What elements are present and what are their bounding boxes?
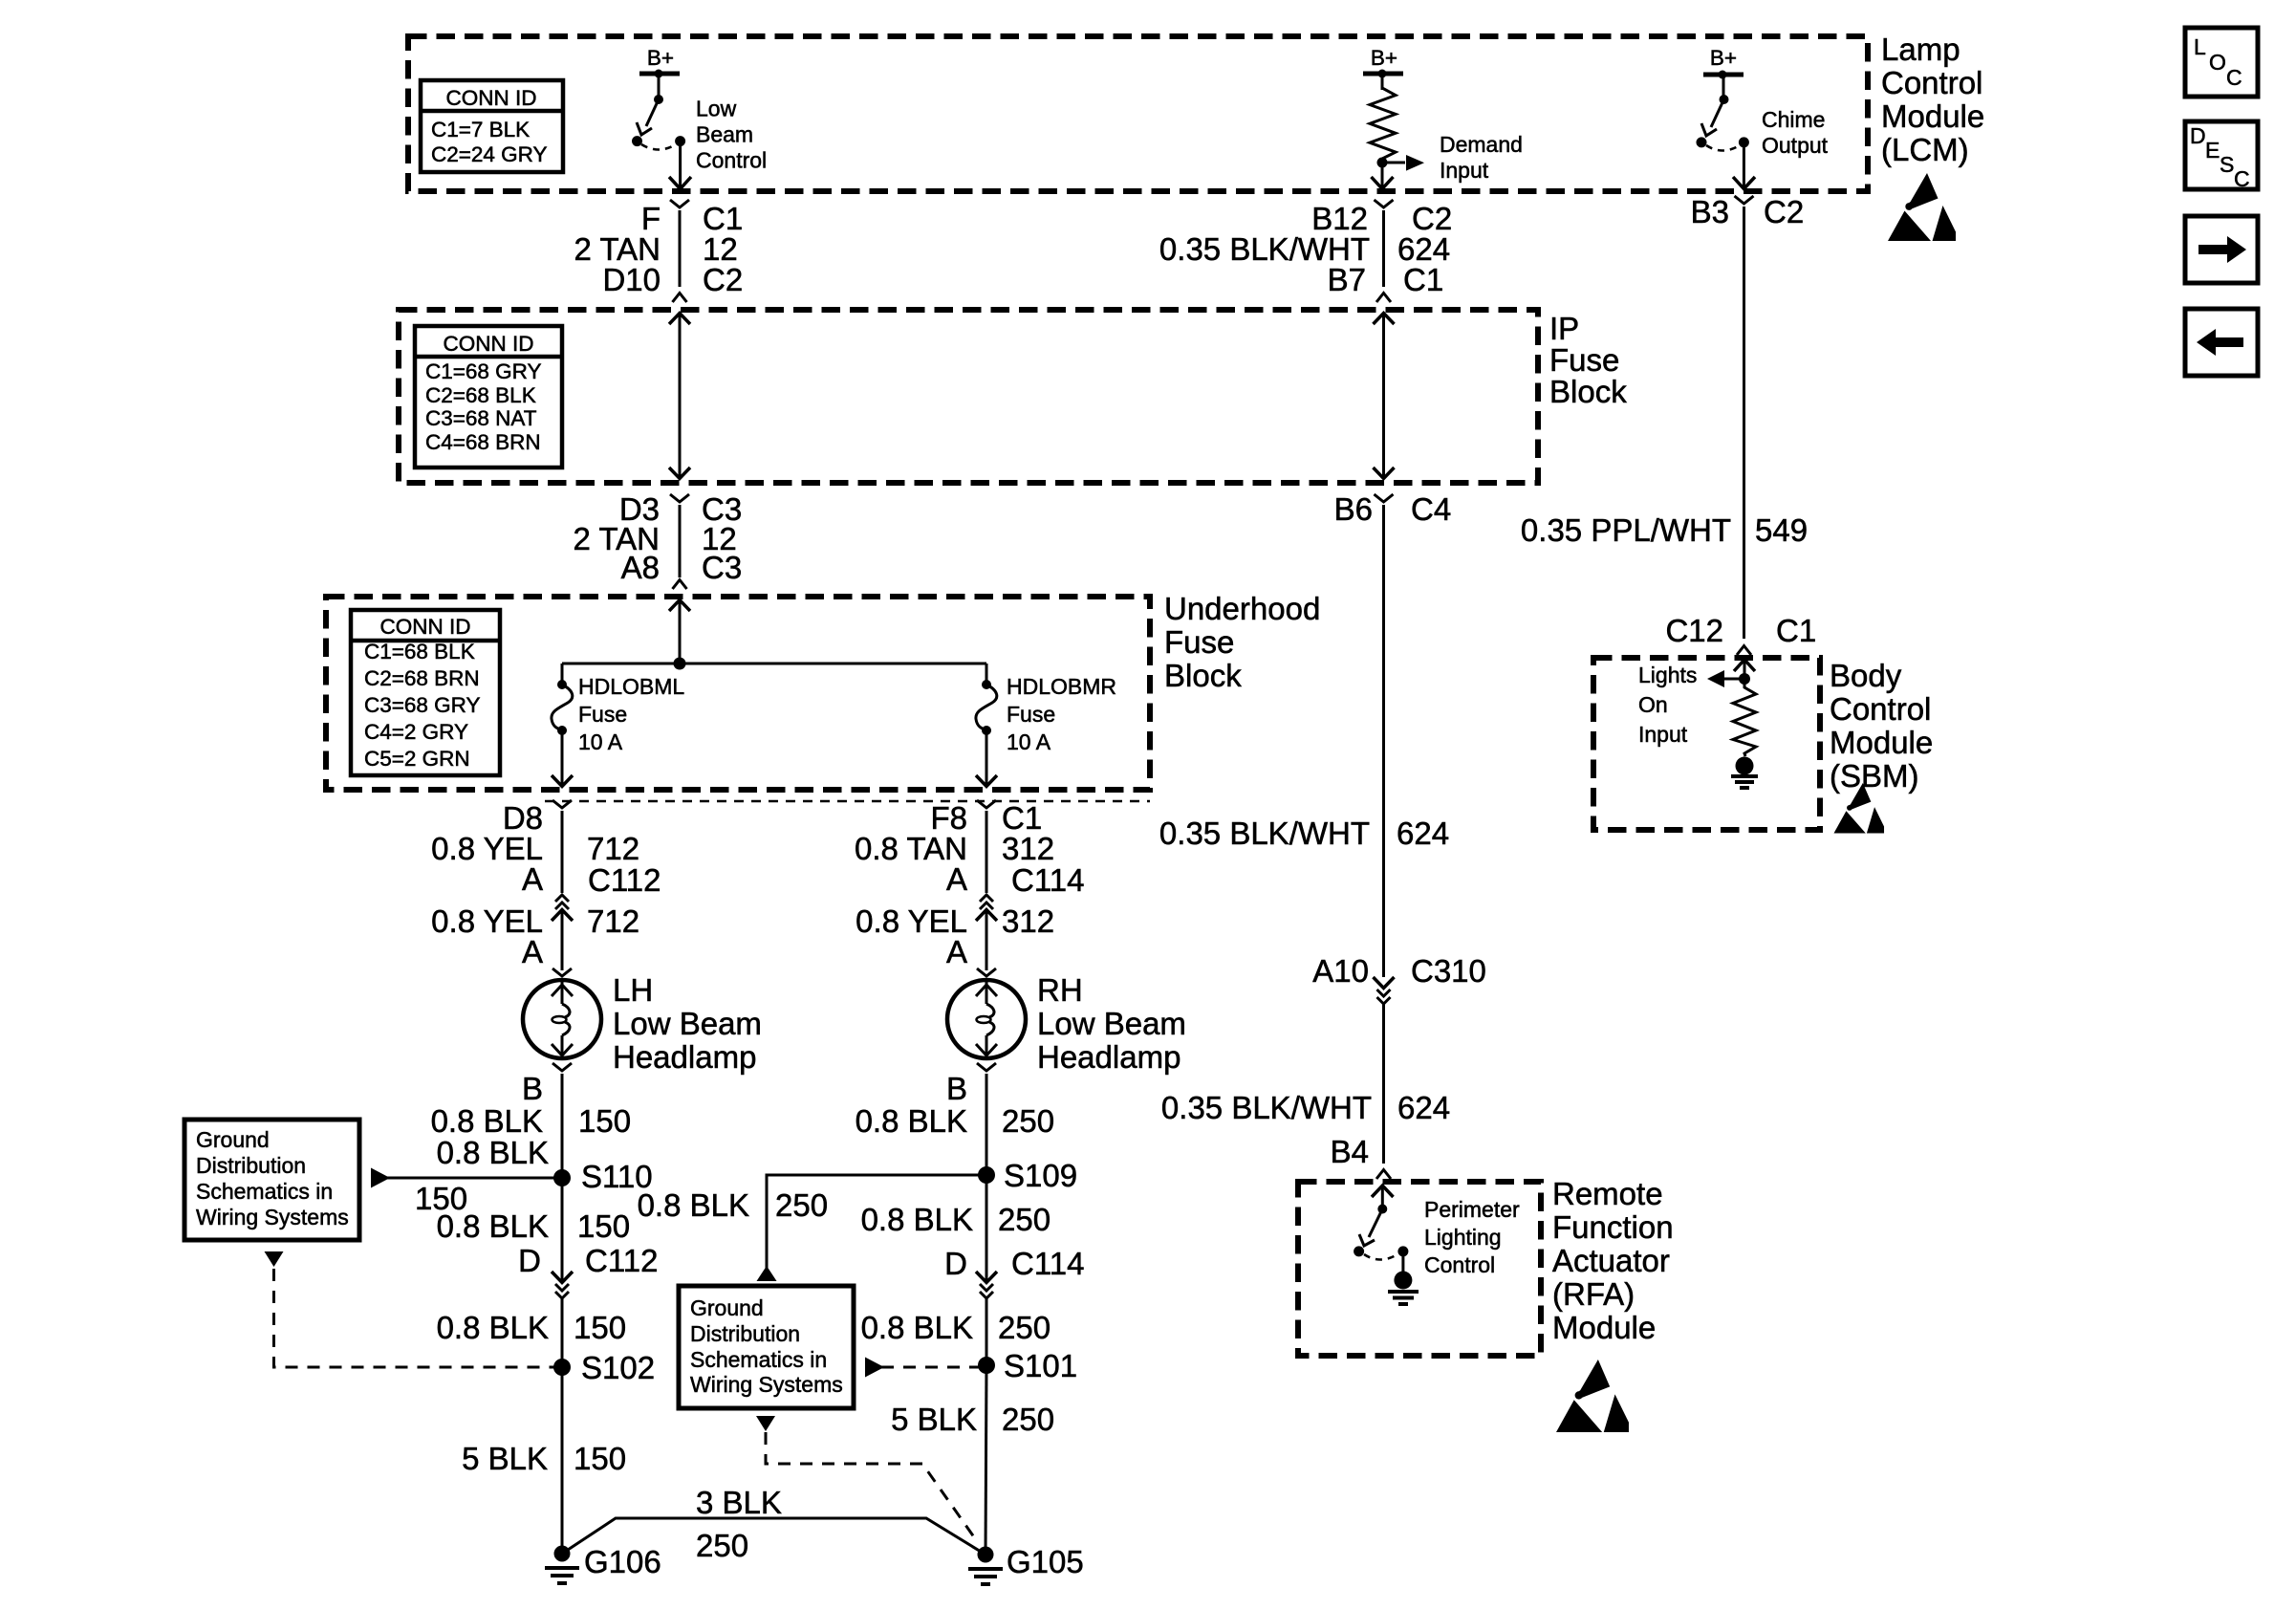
svg-text:B7: B7 bbox=[1328, 262, 1366, 297]
pin label: A / C114 bbox=[946, 861, 1084, 898]
ghost wire: middle ground distribution to G105 bbox=[756, 1416, 977, 1541]
svg-text:B+: B+ bbox=[1371, 46, 1397, 70]
ground: G105 bbox=[968, 1547, 1003, 1585]
svg-text:Wiring Systems: Wiring Systems bbox=[196, 1205, 349, 1229]
svg-text:LH: LH bbox=[613, 972, 653, 1008]
svg-text:Fuse: Fuse bbox=[578, 702, 627, 727]
lamp: LH Low Beam Headlamp bbox=[523, 980, 601, 1058]
ghost wire: middle ground distribution to S101 bbox=[865, 1358, 986, 1378]
ground: G106 bbox=[545, 1546, 579, 1584]
wire: LH headlamp pin B to S110 (0.8 BLK 150) bbox=[552, 1063, 572, 1178]
svg-text:C310: C310 bbox=[1411, 953, 1486, 989]
wire: LCM F/C1 to IP D10/C2 (ckt 12, 2 TAN) bbox=[670, 200, 689, 302]
label: Remote Function Actuator (RFA) Module bbox=[1552, 1176, 1674, 1345]
svg-text:Module: Module bbox=[1830, 725, 1933, 760]
wire label: 5 BLK / 250 bbox=[891, 1402, 1054, 1437]
svg-text:A: A bbox=[946, 861, 967, 897]
wire label: 0.35 BLK/WHT / 624 (lower) bbox=[1161, 1090, 1450, 1125]
svg-text:250: 250 bbox=[1002, 1103, 1054, 1139]
svg-text:Input: Input bbox=[1638, 722, 1688, 747]
svg-text:G105: G105 bbox=[1007, 1544, 1084, 1579]
svg-text:B+: B+ bbox=[647, 46, 674, 70]
svg-text:C3: C3 bbox=[702, 550, 742, 585]
wire: LCM B12/C2 to IP B7/C1 (ckt 624) bbox=[1375, 200, 1394, 302]
svg-text:B4: B4 bbox=[1331, 1134, 1369, 1169]
wire: C112 to S102 (0.8 BLK 150) bbox=[561, 1296, 564, 1367]
svg-text:Schematics in: Schematics in bbox=[690, 1347, 827, 1372]
wire label: 0.8 YEL / 712 bbox=[431, 831, 639, 866]
svg-text:C: C bbox=[2226, 65, 2242, 90]
svg-text:0.35 BLK/WHT: 0.35 BLK/WHT bbox=[1161, 1090, 1372, 1125]
svg-text:Body: Body bbox=[1830, 658, 1902, 693]
label: Low Beam Control bbox=[696, 97, 767, 173]
pin label: A / C112 bbox=[522, 861, 661, 898]
wire label: 0.8 BLK / 250 (S109 jog) bbox=[638, 1187, 828, 1223]
pin label: F / C1 bbox=[641, 201, 743, 236]
svg-text:Wiring Systems: Wiring Systems bbox=[690, 1372, 843, 1397]
svg-text:Schematics in: Schematics in bbox=[196, 1179, 333, 1204]
wire: fuse D8 to C112 pin A (0.8 YEL 712) bbox=[552, 800, 572, 893]
svg-text:B6: B6 bbox=[1334, 491, 1373, 527]
label: HDLOBML Fuse 10 A bbox=[578, 674, 684, 754]
svg-text:312: 312 bbox=[1002, 831, 1054, 866]
label: RH Low Beam Headlamp bbox=[1037, 972, 1186, 1075]
svg-text:C2: C2 bbox=[703, 262, 743, 297]
module box: Lamp Control Module (LCM) bbox=[408, 36, 1868, 191]
svg-text:(RFA): (RFA) bbox=[1552, 1276, 1635, 1312]
wire: ground distribution feed into S110 (0.8 BLK 150) bbox=[371, 1168, 562, 1188]
svg-text:312: 312 bbox=[1002, 903, 1054, 939]
svg-text:C1: C1 bbox=[1776, 613, 1816, 648]
svg-text:CONN ID: CONN ID bbox=[446, 86, 537, 110]
svg-text:Ground: Ground bbox=[690, 1295, 764, 1320]
node: S102 bbox=[553, 1359, 571, 1376]
label: Body Control Module (SBM) bbox=[1830, 658, 1933, 794]
svg-text:Chime: Chime bbox=[1762, 107, 1825, 132]
node: underhood feed tee bbox=[562, 658, 986, 670]
svg-text:549: 549 bbox=[1755, 512, 1808, 548]
svg-text:S102: S102 bbox=[581, 1350, 655, 1385]
svg-text:Ground: Ground bbox=[196, 1127, 270, 1152]
label: Perimeter Lighting Control bbox=[1424, 1197, 1520, 1277]
svg-text:Fuse: Fuse bbox=[1007, 702, 1055, 727]
svg-text:CONN ID: CONN ID bbox=[444, 332, 534, 356]
svg-text:IP: IP bbox=[1549, 311, 1579, 346]
switch: Chime Output bbox=[1697, 75, 1749, 151]
wire: low beam control output with arrow into LCM edge bbox=[669, 146, 691, 189]
switch: Perimeter Lighting Control (RFA) bbox=[1354, 1186, 1419, 1304]
pin label: A10 / C310 bbox=[1312, 953, 1486, 989]
svg-text:Low Beam: Low Beam bbox=[1037, 1006, 1186, 1041]
wire label: 0.35 BLK/WHT / 624 (upper) bbox=[1159, 816, 1449, 851]
svg-text:250: 250 bbox=[775, 1187, 828, 1223]
svg-text:A: A bbox=[946, 934, 967, 969]
svg-text:624: 624 bbox=[1397, 1090, 1450, 1125]
wire: C114 to S101 (0.8 BLK 250) bbox=[986, 1296, 988, 1365]
svg-text:Lighting: Lighting bbox=[1424, 1225, 1502, 1250]
svg-text:C3=68 GRY: C3=68 GRY bbox=[364, 693, 481, 717]
wire label: 0.8 YEL / 712 (lamp side) bbox=[431, 903, 639, 939]
svg-text:G106: G106 bbox=[584, 1544, 661, 1579]
wire: C112 to LH headlamp pin A (0.8 YEL 712) bbox=[552, 910, 572, 977]
svg-text:D: D bbox=[2190, 123, 2206, 148]
svg-text:150: 150 bbox=[574, 1310, 626, 1345]
svg-text:5 BLK: 5 BLK bbox=[891, 1402, 977, 1437]
B+ terminal (low beam) bbox=[639, 46, 680, 78]
pin label: D / C114 bbox=[944, 1246, 1084, 1281]
wire: S109 to C114 pin D (0.8 BLK 250) bbox=[986, 1175, 988, 1282]
svg-text:Module: Module bbox=[1552, 1310, 1656, 1345]
svg-text:Actuator: Actuator bbox=[1552, 1243, 1670, 1278]
module box: Underhood Fuse Block bbox=[326, 597, 1150, 790]
svg-text:Block: Block bbox=[1549, 374, 1627, 409]
svg-text:Low Beam: Low Beam bbox=[613, 1006, 762, 1041]
ESD symbol (LCM) bbox=[1888, 173, 1956, 241]
svg-text:C112: C112 bbox=[585, 1243, 658, 1278]
svg-text:B+: B+ bbox=[1710, 46, 1737, 70]
resistor: demand input pull-up bbox=[1370, 74, 1396, 159]
legend box: right arrow bbox=[2185, 216, 2258, 283]
connector arrow into IP fuse block (middle) bbox=[1374, 314, 1395, 480]
node: S101 bbox=[978, 1357, 995, 1374]
svg-text:5 BLK: 5 BLK bbox=[462, 1441, 548, 1476]
svg-text:0.8 BLK: 0.8 BLK bbox=[861, 1202, 973, 1237]
wire: HDLOBML fuse output to box edge arrow bbox=[552, 730, 573, 787]
svg-text:0.8 BLK: 0.8 BLK bbox=[437, 1310, 549, 1345]
reference box: Ground Distribution Schematics in Wiring Systems (left) bbox=[184, 1120, 359, 1240]
svg-text:Block: Block bbox=[1164, 658, 1242, 693]
wire label: 2 TAN / 12 bbox=[574, 521, 737, 556]
svg-text:On: On bbox=[1638, 692, 1668, 717]
wire label: 0.8 BLK / 150 (C112 to S102) bbox=[437, 1310, 626, 1345]
svg-text:250: 250 bbox=[1002, 1402, 1054, 1437]
pin label: C12 / C1 bbox=[1665, 613, 1816, 648]
wire label: 0.8 TAN / 312 bbox=[855, 831, 1054, 866]
svg-text:0.8 BLK: 0.8 BLK bbox=[431, 1103, 543, 1139]
pin label: D10 / C2 bbox=[602, 262, 743, 297]
ESD symbol (BCM) bbox=[1834, 783, 1885, 834]
node: S110 bbox=[553, 1169, 571, 1186]
wire: demand input to LCM edge arrow bbox=[1372, 163, 1394, 189]
svg-text:Control: Control bbox=[696, 148, 767, 173]
svg-text:C4: C4 bbox=[1411, 491, 1451, 527]
svg-text:0.8 BLK: 0.8 BLK bbox=[861, 1310, 973, 1345]
wire: HDLOBMR fuse output to box edge arrow bbox=[976, 730, 997, 787]
node: S109 bbox=[978, 1166, 995, 1184]
pin label: B7 / C1 bbox=[1328, 262, 1444, 297]
svg-text:Control: Control bbox=[1830, 691, 1931, 727]
label: HDLOBMR Fuse 10 A bbox=[1007, 674, 1116, 754]
svg-text:B3: B3 bbox=[1691, 194, 1729, 229]
label: IP Fuse Block bbox=[1549, 311, 1627, 409]
svg-text:C2: C2 bbox=[1764, 194, 1804, 229]
CONN ID table (LCM): C1=7 BLK, C2=24 GRY bbox=[421, 80, 563, 172]
svg-text:0.8 BLK: 0.8 BLK bbox=[638, 1187, 749, 1223]
svg-text:150: 150 bbox=[577, 1208, 630, 1244]
svg-text:B: B bbox=[946, 1071, 967, 1106]
svg-text:C2=68 BLK: C2=68 BLK bbox=[425, 383, 536, 407]
svg-text:250: 250 bbox=[696, 1528, 748, 1563]
svg-text:712: 712 bbox=[587, 831, 639, 866]
svg-text:Low: Low bbox=[696, 97, 737, 121]
module box: Remote Function Actuator (RFA) Module bbox=[1298, 1182, 1541, 1356]
B+ terminal (demand input) bbox=[1363, 46, 1403, 78]
legend box: LOC bbox=[2185, 28, 2258, 97]
wire: S102 to G106 (5 BLK 150) bbox=[561, 1367, 564, 1554]
svg-text:D: D bbox=[944, 1246, 967, 1281]
svg-text:CONN ID: CONN ID bbox=[380, 615, 471, 639]
svg-text:Remote: Remote bbox=[1552, 1176, 1663, 1211]
svg-text:C2=24 GRY: C2=24 GRY bbox=[431, 142, 548, 166]
pin label: D / C112 bbox=[518, 1243, 658, 1278]
wire: S109 jog to ground distribution (0.8 BLK 250) bbox=[757, 1175, 987, 1281]
svg-text:E: E bbox=[2205, 138, 2220, 163]
svg-text:D: D bbox=[518, 1243, 541, 1278]
pin label: B12 / C2 bbox=[1311, 201, 1452, 236]
svg-text:0.35 BLK/WHT: 0.35 BLK/WHT bbox=[1159, 816, 1370, 851]
connector C310 pin A10 (in-line, down-flow) bbox=[1374, 977, 1395, 1004]
svg-text:10 A: 10 A bbox=[578, 729, 623, 754]
ghost wire: left ground distribution to S102 bbox=[265, 1251, 563, 1367]
svg-text:S: S bbox=[2220, 152, 2234, 177]
lamp: RH Low Beam Headlamp bbox=[947, 980, 1026, 1058]
svg-text:C12: C12 bbox=[1665, 613, 1723, 648]
svg-text:C: C bbox=[2234, 166, 2250, 191]
wire label: 0.35 BLK/WHT / 624 bbox=[1159, 231, 1450, 267]
svg-text:Control: Control bbox=[1424, 1252, 1495, 1277]
svg-text:0.35 PPL/WHT: 0.35 PPL/WHT bbox=[1521, 512, 1731, 548]
pin label: B6 / C4 bbox=[1334, 491, 1452, 527]
svg-text:250: 250 bbox=[998, 1202, 1051, 1237]
module box: Body Control Module (SBM) bbox=[1593, 658, 1820, 830]
wire label: 3 BLK / 250 bbox=[696, 1485, 782, 1563]
svg-text:B: B bbox=[522, 1071, 543, 1106]
connector C114 pin A (in-line, up-flow) bbox=[976, 895, 997, 921]
svg-text:Module: Module bbox=[1881, 98, 1984, 134]
connector arrow into IP fuse block (left) bbox=[669, 314, 690, 480]
connector line C1 (underhood bottom) bbox=[545, 800, 1150, 803]
svg-text:Beam: Beam bbox=[696, 122, 753, 147]
ESD symbol (RFA) bbox=[1556, 1360, 1629, 1432]
svg-text:D10: D10 bbox=[602, 262, 661, 297]
svg-text:Headlamp: Headlamp bbox=[613, 1039, 756, 1075]
fuse: HDLOBML 10 A bbox=[552, 664, 573, 735]
svg-text:A: A bbox=[522, 934, 543, 969]
connector C112 pin A (in-line, up-flow) bbox=[552, 895, 573, 921]
connector C112 pin D (in-line, down-flow) bbox=[552, 1272, 573, 1298]
resistor: Lights On Input (BCM) bbox=[1707, 660, 1758, 788]
svg-text:C112: C112 bbox=[588, 862, 661, 898]
svg-text:RH: RH bbox=[1037, 972, 1083, 1008]
svg-text:C1: C1 bbox=[1403, 262, 1443, 297]
pin label: A8 / C3 bbox=[621, 550, 743, 585]
svg-text:0.8 BLK: 0.8 BLK bbox=[437, 1135, 549, 1170]
label: Demand Input bbox=[1440, 132, 1523, 183]
svg-text:0.8 BLK: 0.8 BLK bbox=[856, 1103, 967, 1139]
pin label: D3 / C3 bbox=[619, 491, 742, 527]
svg-text:Distribution: Distribution bbox=[196, 1153, 306, 1178]
label: LH Low Beam Headlamp bbox=[613, 972, 762, 1075]
svg-text:Control: Control bbox=[1881, 65, 1982, 100]
svg-text:Fuse: Fuse bbox=[1549, 342, 1619, 378]
svg-text:C4=2 GRY: C4=2 GRY bbox=[364, 720, 468, 744]
svg-text:S109: S109 bbox=[1004, 1158, 1077, 1193]
wire label: 0.8 BLK / 150 (S110 to C112) bbox=[437, 1208, 630, 1244]
svg-text:150: 150 bbox=[574, 1441, 626, 1476]
svg-text:Function: Function bbox=[1552, 1209, 1674, 1245]
svg-text:Output: Output bbox=[1762, 133, 1829, 158]
wire label: 5 BLK / 150 bbox=[462, 1441, 626, 1476]
svg-text:L: L bbox=[2194, 34, 2206, 59]
CONN ID table (IP fuse block): C1..C4 bbox=[415, 326, 562, 468]
svg-text:Fuse: Fuse bbox=[1164, 624, 1234, 660]
wire: fuse F8 to C114 pin A (0.8 TAN 312) bbox=[977, 800, 996, 893]
svg-text:A: A bbox=[522, 861, 543, 897]
svg-text:150: 150 bbox=[578, 1103, 631, 1139]
node: demand input tap bbox=[1377, 155, 1425, 171]
wire: IP B6/C4 to RFA B4 (0.35 BLK/WHT 624) bbox=[1375, 494, 1394, 977]
legend box: left arrow bbox=[2185, 309, 2258, 376]
svg-text:0.8 BLK: 0.8 BLK bbox=[437, 1208, 549, 1244]
svg-text:(SBM): (SBM) bbox=[1830, 758, 1919, 794]
wire label: 0.8 BLK / 250 (S109 to C114) bbox=[861, 1202, 1051, 1237]
wire label: 2 TAN / 12 bbox=[574, 231, 738, 267]
svg-text:3 BLK: 3 BLK bbox=[696, 1485, 782, 1520]
svg-text:C4=68 BRN: C4=68 BRN bbox=[425, 430, 541, 454]
svg-text:712: 712 bbox=[587, 903, 639, 939]
svg-text:C2=68 BRN: C2=68 BRN bbox=[364, 666, 480, 690]
wire: S101 to G105 (5 BLK 250) bbox=[986, 1365, 986, 1555]
svg-text:10 A: 10 A bbox=[1007, 729, 1051, 754]
label: Lights On Input bbox=[1638, 663, 1697, 747]
wire label: 0.35 PPL/WHT / 549 bbox=[1521, 512, 1808, 548]
wire: 3 BLK 250 ground harness G106 to G105 bbox=[562, 1518, 986, 1555]
label: Underhood Fuse Block bbox=[1164, 591, 1320, 693]
svg-text:S101: S101 bbox=[1004, 1348, 1077, 1383]
wire: C114 to RH headlamp pin A (0.8 YEL 312) bbox=[977, 910, 996, 977]
module box: IP Fuse Block bbox=[399, 310, 1538, 483]
svg-text:C1=68 GRY: C1=68 GRY bbox=[425, 359, 542, 383]
wire: chime output to LCM edge arrow bbox=[1733, 147, 1755, 189]
legend box: DESC bbox=[2185, 121, 2258, 191]
connector arrow into underhood fuse block bbox=[669, 600, 690, 664]
svg-text:250: 250 bbox=[998, 1310, 1051, 1345]
svg-text:Distribution: Distribution bbox=[690, 1321, 800, 1346]
svg-text:Perimeter: Perimeter bbox=[1424, 1197, 1520, 1222]
svg-text:C3=68 NAT: C3=68 NAT bbox=[425, 406, 537, 430]
wire: C310 to RFA (0.35 BLK/WHT 624) bbox=[1376, 1002, 1391, 1179]
fuse: HDLOBMR 10 A bbox=[976, 664, 997, 735]
wire: LCM B3/C2 to BCM C12/C1 (0.35 PPL/WHT 549) bbox=[1735, 196, 1754, 655]
pin label: B3 / C2 bbox=[1691, 194, 1805, 229]
label: Lamp Control Module (LCM) bbox=[1881, 32, 1984, 167]
svg-text:C1=7 BLK: C1=7 BLK bbox=[431, 118, 530, 141]
svg-text:HDLOBML: HDLOBML bbox=[578, 674, 684, 699]
svg-text:C5=2 GRN: C5=2 GRN bbox=[364, 747, 470, 771]
pin label: F8 / C1 bbox=[930, 800, 1042, 836]
svg-text:C114: C114 bbox=[1011, 862, 1084, 898]
wire: IP D3/C3 to underhood A8/C3 (ckt 12, 2 TAN) bbox=[670, 494, 689, 589]
svg-text:Lamp: Lamp bbox=[1881, 32, 1960, 67]
svg-text:(LCM): (LCM) bbox=[1881, 132, 1969, 167]
svg-text:Underhood: Underhood bbox=[1164, 591, 1320, 626]
svg-text:Lights: Lights bbox=[1638, 663, 1697, 687]
reference box: Ground Distribution Schematics in Wiring Systems (middle) bbox=[679, 1286, 854, 1408]
wire: RH headlamp pin B to S109 (0.8 BLK 250) bbox=[977, 1063, 996, 1175]
wire: S110 to C112 pin D (0.8 BLK 150) bbox=[561, 1178, 564, 1282]
svg-text:Headlamp: Headlamp bbox=[1037, 1039, 1180, 1075]
svg-text:Demand: Demand bbox=[1440, 132, 1523, 157]
CONN ID table (underhood fuse block): C1..C5 bbox=[351, 610, 500, 775]
svg-text:A10: A10 bbox=[1312, 953, 1369, 989]
wire label: 0.8 YEL / 312 (lamp side) bbox=[856, 903, 1054, 939]
connector C114 pin D (in-line, down-flow) bbox=[976, 1272, 997, 1298]
wire label: 0.8 BLK / 250 bbox=[856, 1103, 1054, 1139]
wire label: 0.8 BLK / 250 (C114 to S101) bbox=[861, 1310, 1051, 1345]
switch: Low Beam Control bbox=[632, 74, 685, 150]
svg-text:O: O bbox=[2209, 50, 2226, 75]
svg-text:624: 624 bbox=[1397, 816, 1449, 851]
svg-text:C1=68 BLK: C1=68 BLK bbox=[364, 640, 475, 664]
svg-text:Input: Input bbox=[1440, 158, 1489, 183]
svg-text:A8: A8 bbox=[621, 550, 660, 585]
svg-text:HDLOBMR: HDLOBMR bbox=[1007, 674, 1116, 699]
wire label: 0.8 BLK / 150 bbox=[431, 1103, 631, 1139]
svg-text:C114: C114 bbox=[1011, 1246, 1084, 1281]
B+ terminal (chime) bbox=[1703, 46, 1744, 79]
label: Chime Output bbox=[1762, 107, 1829, 158]
